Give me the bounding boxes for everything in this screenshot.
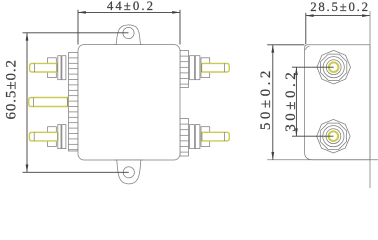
- terminal washer: [190, 125, 195, 149]
- side-view terminal outer octagon: [317, 50, 351, 84]
- dimension 50±0.2: [267, 45, 304, 160]
- front view: right terminal fin strip (top): [180, 51, 189, 88]
- terminal washer: [62, 56, 66, 80]
- terminal pin: [29, 132, 57, 141]
- side view body: [267, 11, 378, 188]
- side-view terminal ring: [323, 57, 344, 78]
- terminal nut block: [48, 58, 57, 78]
- side-view terminal outer octagon: [317, 119, 351, 153]
- dimension 30±0.2: [292, 67, 334, 136]
- terminal nut block: [48, 127, 57, 147]
- bottom mounting hole: [123, 167, 134, 178]
- front view: left terminal fin strip: [69, 53, 79, 152]
- frame/extension line bottom of side view: [267, 159, 378, 161]
- side-view terminal brass bushing: [329, 62, 339, 72]
- body edge through ear bases: [114, 44, 143, 46]
- top mounting hole: [123, 27, 134, 38]
- terminal pin: [29, 98, 68, 107]
- svg-text:30±0.2: 30±0.2: [283, 69, 299, 132]
- front view: bottom mounting ear: [117, 160, 141, 184]
- svg-text:60.5±0.2: 60.5±0.2: [4, 59, 20, 119]
- dimension 28.5±0.2: [306, 13, 370, 44]
- side-view terminal brass bushing: [329, 131, 339, 141]
- terminal washer: [195, 125, 200, 149]
- svg-text:28.5±0.2: 28.5±0.2: [310, 0, 370, 14]
- side-view terminal ring: [326, 60, 341, 75]
- frame line right: [369, 11, 371, 188]
- front view: top mounting ear: [116, 25, 140, 45]
- terminal washer: [58, 56, 61, 80]
- terminal nut block: [201, 127, 210, 147]
- terminal pin: [202, 63, 230, 72]
- side-view terminal ring: [323, 126, 344, 147]
- terminal washer: [58, 125, 61, 149]
- svg-text:50±0.2: 50±0.2: [258, 67, 274, 130]
- front view: filter body: [78, 45, 180, 160]
- terminal washer: [195, 56, 200, 80]
- svg-text:44±0.2: 44±0.2: [107, 0, 155, 13]
- terminal washer: [62, 125, 66, 149]
- side body corner chamfer mark: [306, 46, 310, 50]
- dimension 44±0.2: [78, 10, 180, 45]
- side-view terminal inner octagon: [320, 123, 346, 149]
- front view: right terminal fin strip (bottom): [180, 119, 189, 157]
- terminal pin: [30, 63, 57, 72]
- side-view terminal ring: [326, 129, 341, 144]
- side-view terminal inner octagon: [321, 54, 347, 80]
- dimension 60.5±0.2: [23, 33, 129, 173]
- terminal washer: [190, 56, 195, 80]
- terminal nut block: [201, 58, 210, 78]
- terminal pin: [202, 132, 230, 141]
